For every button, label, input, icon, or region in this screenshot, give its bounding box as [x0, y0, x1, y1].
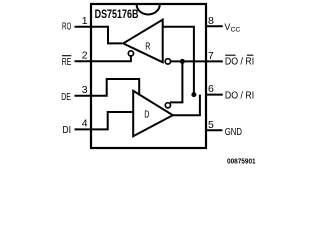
- svg-text:RE: RE: [62, 57, 72, 68]
- svg-text:RO: RO: [62, 22, 71, 33]
- pin 6 stub: [205, 94, 223, 96]
- junction dot pin 7: [180, 59, 185, 64]
- svg-text:DO / RI: DO / RI: [225, 91, 254, 102]
- svg-text:1: 1: [82, 15, 88, 27]
- svg-text:3: 3: [82, 84, 88, 96]
- receiver enable bubble: [128, 51, 133, 56]
- wire receiver non-inverting input to pin6 net: [163, 27, 194, 95]
- svg-text:DS75176B: DS75176B: [95, 9, 139, 21]
- DO overline: [225, 54, 235, 56]
- pin 1 stub: [75, 26, 93, 28]
- svg-text:5: 5: [208, 119, 214, 131]
- wire driver output to pin6 net: [172, 95, 200, 116]
- svg-text:4: 4: [82, 118, 88, 130]
- junction dot pin 6: [191, 92, 196, 97]
- pin 7 stub: [205, 60, 223, 62]
- driver inverting output bubble: [165, 103, 170, 108]
- IC body DS75176B: [91, 4, 206, 148]
- svg-text:6: 6: [208, 83, 214, 95]
- RI overline: [247, 54, 253, 56]
- svg-text:2: 2: [82, 49, 88, 61]
- svg-text:DO / RI: DO / RI: [225, 57, 254, 68]
- wire RO to receiver output: [91, 27, 122, 44]
- svg-text:00875901: 00875901: [227, 157, 256, 166]
- pin 2 stub: [75, 60, 93, 62]
- wire driver inverting output to pin7 junction: [170, 61, 182, 102]
- pin 5 stub: [205, 129, 222, 131]
- pin 8 stub: [205, 25, 223, 27]
- pin 3 stub: [75, 95, 93, 97]
- pin 4 stub: [75, 128, 93, 130]
- wire pin 7 net: [171, 60, 206, 62]
- DIP notch: [137, 4, 160, 14]
- svg-text:GND: GND: [225, 127, 242, 138]
- wire DE to driver enable: [91, 79, 139, 96]
- svg-text:DE: DE: [61, 92, 71, 103]
- wire RE to enable bubble: [91, 56, 131, 61]
- driver D: [133, 91, 173, 136]
- receiver inverting input bubble: [165, 59, 170, 64]
- RE overline: [62, 55, 71, 57]
- svg-text:8: 8: [208, 15, 214, 27]
- receiver R: [123, 20, 163, 63]
- svg-text:D: D: [144, 109, 149, 121]
- svg-text:R: R: [145, 41, 150, 53]
- svg-text:DI: DI: [62, 125, 71, 136]
- svg-text:7: 7: [208, 50, 214, 62]
- wire DI to driver input: [91, 112, 134, 129]
